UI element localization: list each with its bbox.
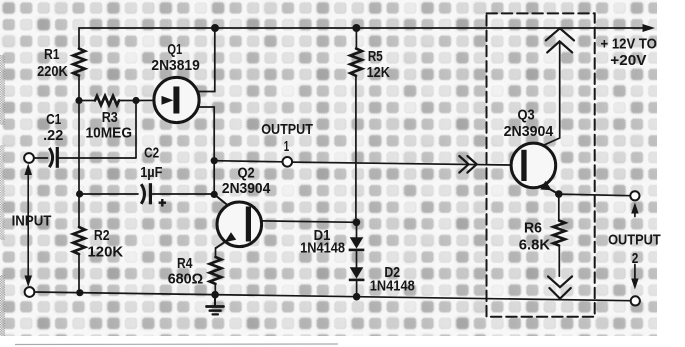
svg-text:R2: R2: [94, 227, 110, 244]
svg-text:1µF: 1µF: [140, 164, 162, 181]
svg-text:R6: R6: [524, 220, 542, 237]
svg-text:220K: 220K: [37, 63, 68, 80]
svg-text:6.8K: 6.8K: [519, 236, 550, 253]
svg-text:2N3819: 2N3819: [151, 57, 199, 74]
svg-text:Q3: Q3: [518, 107, 535, 124]
svg-text:OUTPUT: OUTPUT: [261, 121, 313, 138]
svg-text:+20V: +20V: [610, 52, 646, 69]
svg-text:2: 2: [632, 250, 639, 267]
svg-text:Q2: Q2: [238, 164, 255, 181]
svg-text:680Ω: 680Ω: [168, 270, 204, 287]
svg-text:2N3904: 2N3904: [222, 180, 271, 197]
svg-text:.22: .22: [43, 127, 63, 144]
svg-text:Q1: Q1: [167, 41, 182, 58]
svg-text:10MEG: 10MEG: [86, 124, 133, 141]
svg-text:C2: C2: [144, 145, 159, 162]
svg-text:1N4148: 1N4148: [370, 278, 415, 295]
svg-text:1: 1: [284, 138, 289, 155]
svg-text:R5: R5: [368, 48, 383, 65]
svg-text:R1: R1: [44, 46, 60, 63]
svg-text:2N3904: 2N3904: [504, 123, 554, 140]
svg-text:+ 12V TO: + 12V TO: [601, 36, 658, 53]
svg-text:120K: 120K: [88, 244, 124, 261]
svg-text:1N4148: 1N4148: [300, 240, 345, 257]
svg-text:INPUT: INPUT: [12, 213, 52, 230]
svg-text:OUTPUT: OUTPUT: [608, 232, 661, 249]
svg-text:C1: C1: [46, 111, 61, 128]
svg-text:12K: 12K: [367, 64, 390, 81]
